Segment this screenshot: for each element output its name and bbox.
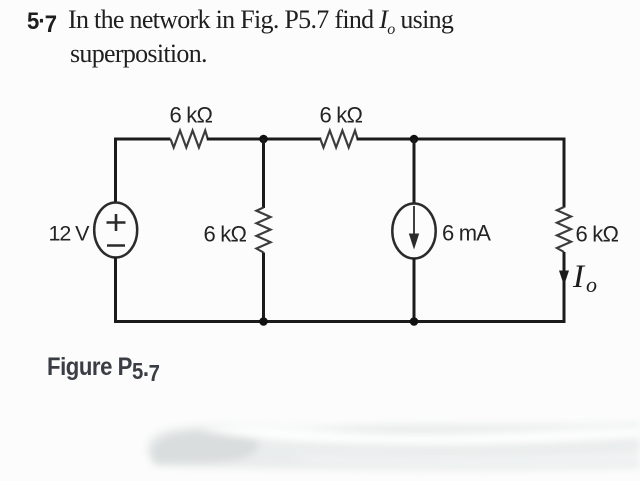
- node bottom junction 1: [259, 317, 268, 326]
- resistor R2 6k (top middle, horizontal): [320, 131, 357, 148]
- problem number 5-7: [27, 10, 56, 34]
- node B: top junction 2: [410, 135, 419, 144]
- svg-text:6 kΩ: 6 kΩ: [320, 103, 363, 128]
- wire: current source branch bottom: [413, 258, 416, 322]
- node A: top junction 1: [259, 135, 268, 144]
- figure caption: Figure P5.7: [47, 355, 159, 380]
- problem statement line 1: [68, 7, 453, 38]
- label Io (circuit output current): [573, 261, 597, 294]
- node bottom junction 2: [410, 317, 419, 326]
- svg-text:6 kΩ: 6 kΩ: [204, 222, 247, 247]
- problem statement line 2: [70, 41, 207, 67]
- wire: middle branch bottom: [262, 253, 265, 322]
- resistor R1 6k (top left, horizontal): [171, 131, 208, 148]
- resistor R4 6k (right, vertical): [557, 207, 571, 252]
- svg-text:6 mA: 6 mA: [442, 221, 491, 246]
- wire: right rail bottom segment: [264, 252, 565, 322]
- current source I1 6mA (circle with down arrow): [392, 204, 435, 259]
- wire: left rail bottom segment: [116, 257, 264, 322]
- svg-text:6 kΩ: 6 kΩ: [576, 222, 619, 247]
- wire: top rail right segment: [357, 139, 564, 208]
- voltage source V1 12V (circle with plus minus): [94, 203, 137, 258]
- wire: top rail middle segment: [207, 138, 321, 141]
- current Io arrowhead on right wire: [559, 271, 569, 286]
- svg-text:12 V: 12 V: [49, 222, 91, 246]
- resistor R3 6k (middle, vertical): [256, 208, 270, 253]
- wire: middle branch top: [262, 139, 265, 208]
- wire: top rail left segment: [116, 139, 171, 204]
- wire: current source branch top: [413, 139, 416, 204]
- svg-text:6 kΩ: 6 kΩ: [170, 103, 213, 128]
